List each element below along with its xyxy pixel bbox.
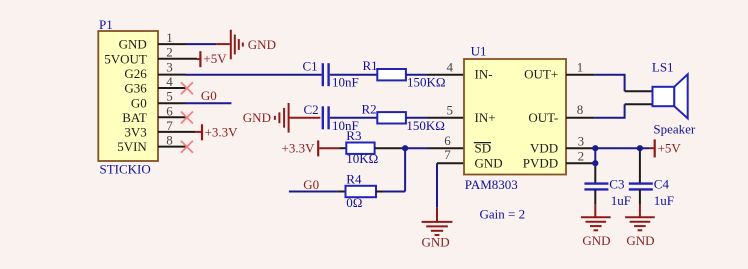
svg-text:2: 2 [578, 148, 585, 163]
svg-text:5: 5 [166, 89, 173, 104]
svg-text:R3: R3 [346, 128, 361, 143]
svg-text:4: 4 [166, 74, 173, 89]
svg-text:IN+: IN+ [475, 110, 496, 125]
svg-text:GND: GND [626, 233, 654, 248]
svg-text:GND: GND [475, 156, 503, 171]
svg-text:G0: G0 [201, 88, 217, 103]
svg-text:+5V: +5V [203, 51, 227, 66]
svg-text:1: 1 [166, 30, 173, 45]
svg-text:2: 2 [166, 45, 173, 60]
svg-text:1: 1 [577, 59, 584, 74]
svg-text:+3.3V: +3.3V [282, 141, 316, 156]
svg-text:1uF: 1uF [611, 193, 631, 208]
svg-text:C1: C1 [303, 59, 318, 74]
svg-text:GND: GND [119, 37, 147, 52]
svg-text:Speaker: Speaker [653, 122, 696, 137]
svg-text:10KΩ: 10KΩ [346, 151, 378, 166]
svg-text:7: 7 [166, 118, 173, 133]
svg-text:R2: R2 [362, 101, 377, 116]
svg-text:LS1: LS1 [652, 59, 674, 74]
svg-text:5: 5 [447, 103, 454, 118]
svg-text:PVDD: PVDD [523, 156, 558, 171]
svg-text:OUT+: OUT+ [524, 67, 558, 82]
svg-text:GND: GND [582, 233, 610, 248]
svg-text:P1: P1 [99, 17, 113, 32]
svg-text:3: 3 [166, 59, 173, 74]
svg-text:+5V: +5V [658, 141, 682, 156]
svg-text:PAM8303: PAM8303 [465, 177, 518, 192]
svg-text:G0: G0 [303, 177, 319, 192]
svg-text:150KΩ: 150KΩ [407, 74, 446, 89]
svg-text:+3.3V: +3.3V [205, 124, 239, 139]
svg-text:VDD: VDD [530, 141, 558, 156]
svg-text:R4: R4 [346, 171, 362, 186]
svg-text:C2: C2 [304, 102, 319, 117]
svg-text:BAT: BAT [122, 110, 147, 125]
svg-text:C3: C3 [609, 176, 624, 191]
svg-text:U1: U1 [471, 43, 487, 58]
svg-text:G0: G0 [131, 95, 147, 110]
svg-text:1uF: 1uF [654, 193, 674, 208]
svg-text:G36: G36 [124, 81, 147, 96]
svg-text:OUT-: OUT- [528, 110, 558, 125]
svg-text:C4: C4 [654, 176, 670, 191]
svg-text:6: 6 [444, 133, 451, 148]
svg-text:8: 8 [166, 133, 173, 148]
svg-text:0Ω: 0Ω [346, 195, 362, 210]
svg-text:5VIN: 5VIN [117, 139, 147, 154]
svg-text:8: 8 [577, 102, 584, 117]
svg-text:7: 7 [444, 147, 451, 162]
svg-text:GND: GND [422, 235, 450, 250]
svg-text:6: 6 [166, 103, 173, 118]
svg-text:4: 4 [447, 59, 454, 74]
svg-text:R1: R1 [363, 58, 378, 73]
svg-text:5VOUT: 5VOUT [104, 51, 147, 66]
svg-text:G26: G26 [124, 66, 147, 81]
svg-text:GND: GND [248, 37, 276, 52]
svg-text:GND: GND [243, 110, 271, 125]
svg-text:IN-: IN- [475, 67, 493, 82]
svg-text:3V3: 3V3 [124, 125, 146, 140]
svg-text:STICKIO: STICKIO [100, 161, 151, 176]
svg-text:Gain = 2: Gain = 2 [480, 206, 526, 221]
svg-text:10nF: 10nF [332, 74, 359, 89]
svg-text:3: 3 [578, 134, 585, 149]
svg-text:150KΩ: 150KΩ [406, 118, 445, 133]
